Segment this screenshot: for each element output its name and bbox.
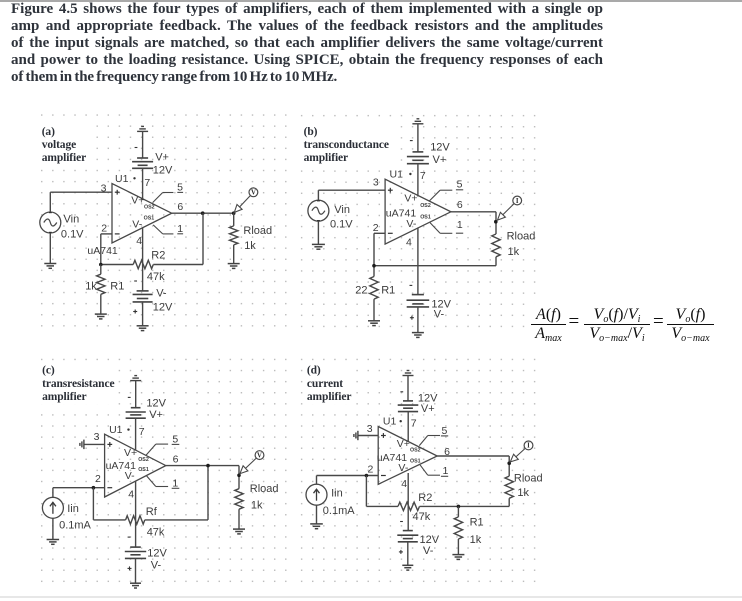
svg-text:R2: R2 — [418, 492, 432, 504]
svg-text:1k: 1k — [517, 487, 529, 499]
svg-text:OS1: OS1 — [144, 215, 155, 221]
svg-text:Vin: Vin — [334, 204, 350, 216]
svg-text:3: 3 — [367, 423, 373, 435]
svg-text:V+: V+ — [149, 409, 163, 421]
svg-text:R2: R2 — [151, 249, 165, 261]
svg-text:amplifier: amplifier — [304, 152, 348, 164]
svg-text:4: 4 — [401, 478, 407, 490]
svg-text:V-: V- — [132, 218, 142, 230]
svg-text:12V: 12V — [153, 301, 173, 313]
svg-text:6: 6 — [457, 199, 463, 211]
svg-text:V+: V+ — [155, 151, 169, 163]
svg-text:12V: 12V — [430, 141, 450, 153]
svg-text:V: V — [251, 190, 256, 197]
svg-text:2: 2 — [101, 222, 107, 234]
svg-text:6: 6 — [177, 201, 183, 213]
svg-text:transresistance: transresistance — [42, 378, 114, 390]
svg-text:OS2: OS2 — [410, 448, 421, 454]
svg-text:I: I — [527, 443, 530, 450]
svg-text:amplifier: amplifier — [42, 152, 86, 164]
svg-text:Vin: Vin — [64, 214, 80, 226]
svg-text:V+: V+ — [433, 154, 447, 166]
svg-text:(c): (c) — [42, 365, 55, 377]
svg-text:OS1: OS1 — [420, 214, 431, 220]
svg-text:U1: U1 — [109, 424, 123, 436]
svg-text:R1: R1 — [110, 280, 124, 292]
svg-text:1k: 1k — [470, 534, 482, 546]
svg-text:V-: V- — [434, 309, 445, 321]
svg-text:Iin: Iin — [67, 503, 79, 515]
svg-text:voltage: voltage — [42, 139, 76, 151]
svg-text:5: 5 — [177, 182, 183, 194]
svg-text:12V: 12V — [153, 164, 173, 176]
svg-text:5: 5 — [441, 425, 447, 437]
svg-text:12V: 12V — [147, 547, 167, 559]
svg-text:1k: 1k — [508, 246, 520, 258]
svg-text:4: 4 — [136, 235, 142, 247]
svg-text:0.1V: 0.1V — [61, 228, 84, 240]
svg-text:Rload: Rload — [250, 483, 279, 495]
svg-text:1k: 1k — [251, 499, 263, 511]
svg-text:I: I — [516, 198, 519, 205]
svg-text:5: 5 — [457, 179, 463, 191]
svg-text:Rload: Rload — [243, 225, 272, 237]
svg-text:12V: 12V — [420, 534, 440, 546]
svg-text:V-: V- — [156, 288, 167, 300]
svg-text:3: 3 — [373, 176, 379, 188]
svg-text:7: 7 — [139, 426, 145, 438]
svg-text:22: 22 — [355, 284, 367, 296]
svg-text:12V: 12V — [146, 397, 166, 409]
svg-text:V+: V+ — [397, 438, 410, 450]
svg-text:Rf: Rf — [146, 506, 158, 518]
svg-text:7: 7 — [420, 170, 426, 182]
svg-text:U1: U1 — [115, 173, 129, 185]
svg-text:V-: V- — [151, 559, 162, 571]
svg-text:47k: 47k — [413, 511, 431, 523]
svg-text:OS1: OS1 — [138, 467, 149, 473]
svg-text:V+: V+ — [404, 193, 417, 205]
svg-text:3: 3 — [101, 183, 107, 195]
svg-text:V+: V+ — [131, 195, 144, 207]
svg-text:1: 1 — [177, 223, 183, 235]
svg-text:0.1V: 0.1V — [330, 219, 353, 231]
svg-text:R1: R1 — [470, 517, 484, 529]
svg-text:V: V — [257, 452, 262, 459]
svg-text:OS2: OS2 — [420, 203, 431, 209]
svg-text:7: 7 — [411, 418, 417, 430]
svg-text:current: current — [307, 378, 343, 390]
svg-text:uA741: uA741 — [377, 452, 408, 464]
svg-text:47k: 47k — [147, 271, 165, 283]
svg-text:Rload: Rload — [507, 230, 536, 242]
svg-text:U1: U1 — [390, 168, 404, 180]
svg-text:OS2: OS2 — [138, 457, 149, 463]
svg-text:(b): (b) — [304, 126, 318, 138]
svg-text:2: 2 — [373, 222, 379, 234]
svg-text:4: 4 — [128, 489, 134, 501]
svg-text:7: 7 — [144, 177, 150, 189]
svg-text:2: 2 — [95, 473, 101, 485]
svg-text:47k: 47k — [147, 526, 165, 538]
svg-text:1: 1 — [457, 219, 463, 231]
svg-text:(d): (d) — [307, 365, 321, 377]
svg-text:V+: V+ — [124, 447, 137, 459]
svg-text:1k: 1k — [85, 280, 97, 292]
svg-text:2: 2 — [368, 464, 374, 476]
svg-text:OS1: OS1 — [410, 458, 421, 464]
svg-text:amplifier: amplifier — [42, 391, 86, 403]
svg-text:0.1mA: 0.1mA — [59, 519, 91, 531]
svg-text:0.1mA: 0.1mA — [323, 505, 355, 517]
svg-text:V+: V+ — [421, 403, 435, 415]
svg-text:OS2: OS2 — [144, 205, 155, 211]
svg-text:Rload: Rload — [514, 473, 543, 485]
svg-text:5: 5 — [172, 433, 178, 445]
svg-text:transconductance: transconductance — [304, 139, 389, 151]
svg-text:uA741: uA741 — [386, 207, 417, 219]
svg-text:amplifier: amplifier — [307, 391, 351, 403]
svg-text:V-: V- — [423, 545, 434, 557]
svg-text:4: 4 — [406, 236, 412, 248]
svg-text:1: 1 — [172, 478, 178, 490]
svg-text:6: 6 — [173, 453, 179, 465]
svg-text:R1: R1 — [381, 284, 395, 296]
svg-text:(a): (a) — [42, 126, 55, 138]
svg-text:3: 3 — [94, 431, 100, 443]
svg-text:Iin: Iin — [331, 487, 343, 499]
svg-text:U1: U1 — [383, 415, 397, 427]
svg-text:1: 1 — [442, 465, 448, 477]
svg-text:uA741: uA741 — [106, 460, 137, 472]
svg-text:V-: V- — [406, 218, 416, 230]
svg-text:uA741: uA741 — [87, 245, 118, 257]
svg-text:1k: 1k — [244, 240, 256, 252]
